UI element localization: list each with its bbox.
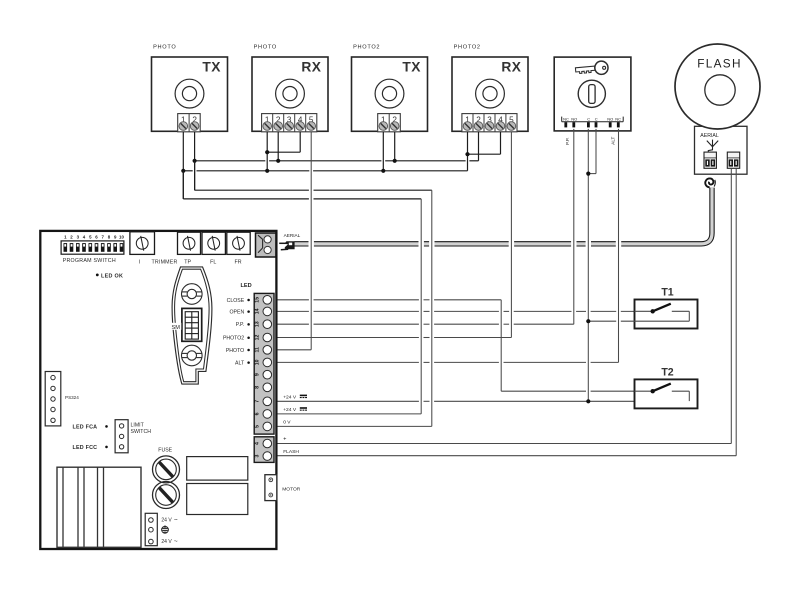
svg-text:FLASH: FLASH <box>283 449 299 455</box>
svg-text:FR: FR <box>234 259 241 265</box>
svg-text:+: + <box>283 437 286 443</box>
svg-text:PHOTO2: PHOTO2 <box>223 336 244 342</box>
svg-text:FLASH: FLASH <box>697 57 742 71</box>
svg-text:TX: TX <box>402 60 421 75</box>
svg-text:SWITCH: SWITCH <box>131 429 152 435</box>
power terminal block 24V <box>145 513 157 545</box>
board terminal strip 15..5 <box>254 293 274 434</box>
svg-text:LED: LED <box>241 283 252 289</box>
T1 lower wire to key common <box>588 320 616 322</box>
svg-text:PHOTO: PHOTO <box>226 348 244 354</box>
coax aerial cable from board to flash <box>295 188 713 244</box>
svg-text:6: 6 <box>255 412 261 415</box>
svg-text:13: 13 <box>255 321 261 327</box>
wire H2: TX1-1 / bus B feed to +24V vertical <box>182 171 184 199</box>
svg-text:CLOSE: CLOSE <box>227 298 245 304</box>
control board outline <box>40 231 276 549</box>
wire: TX1 terminal 1 drop to +24V bus <box>182 132 184 199</box>
vertical wire to board 0V terminal 5 <box>431 190 433 426</box>
DIP switch numbers 1-10 <box>64 234 124 239</box>
svg-text:24 V: 24 V <box>161 539 172 545</box>
wire H1: TX1-2 / bus A feed to 0V vertical <box>194 161 196 190</box>
SM screw bottom <box>182 345 203 366</box>
svg-text:C: C <box>587 116 590 121</box>
coax connector glyph at board aerial terminals <box>279 241 294 250</box>
line terminal 5 0V <box>278 425 432 427</box>
wire: TX2 terminal 1 drop <box>382 132 384 171</box>
flash aerial terminal block <box>704 152 716 168</box>
svg-text:RX: RX <box>501 60 521 75</box>
flash supply terminal block <box>727 152 739 168</box>
svg-text:7: 7 <box>255 400 261 403</box>
svg-text:11: 11 <box>255 347 261 353</box>
transformer <box>57 467 141 547</box>
svg-text:+24 V: +24 V <box>283 407 297 413</box>
line terminal 11 PHOTO to RX1 <box>278 349 312 351</box>
board terminal block 4,3 <box>254 437 274 463</box>
photocell TX2 terminal block pins 1-2 <box>378 114 401 132</box>
svg-text:~: ~ <box>174 516 178 523</box>
flashing lamp body rect <box>695 126 748 174</box>
svg-text:15: 15 <box>255 297 261 303</box>
wire: RX2 jumper terminal 1 to 4 <box>500 132 502 154</box>
svg-text:C: C <box>595 116 598 121</box>
line terminal 4 + to flash lamp <box>278 443 732 445</box>
svg-text:LED FCC: LED FCC <box>73 445 98 451</box>
DIP switch PROGRAM SWITCH block <box>61 241 124 254</box>
svg-text:ALT: ALT <box>611 136 616 144</box>
wire: RX1 jumper terminal 1 to 4 <box>299 132 301 152</box>
photocell RX1 box <box>252 57 328 131</box>
svg-text:4: 4 <box>255 442 261 445</box>
wire: RX1 terminal 1 drop <box>266 132 268 171</box>
svg-text:ALT: ALT <box>235 360 245 366</box>
wire: TX1 terminal 2 drop to 0V bus <box>194 132 196 190</box>
key selector switch box <box>554 57 631 131</box>
svg-text:AERIAL: AERIAL <box>700 133 719 139</box>
svg-text:PHOTO2: PHOTO2 <box>454 44 481 50</box>
svg-text:PHOTO: PHOTO <box>153 44 176 50</box>
svg-text:PS324: PS324 <box>65 395 79 400</box>
keyhole <box>578 80 605 107</box>
photocell TX2 box <box>352 57 428 131</box>
svg-text:+24 V: +24 V <box>283 394 297 400</box>
svg-text:SM: SM <box>172 325 181 331</box>
svg-text:8: 8 <box>255 386 261 389</box>
bus wire A (0V) across photocells <box>195 160 266 162</box>
trimmer FR box <box>227 232 250 254</box>
wire: RX1 terminal 2 drop <box>277 132 279 161</box>
svg-text:9: 9 <box>255 373 261 376</box>
svg-text:NC: NC <box>615 116 621 121</box>
svg-text:NO: NO <box>571 116 577 121</box>
line terminal 14 OPEN to T1 <box>278 310 309 312</box>
svg-text:I: I <box>139 259 140 265</box>
svg-text:P.P.: P.P. <box>565 137 570 145</box>
bus wire B (+24V) across photocells <box>183 170 192 172</box>
motor terminal block <box>265 475 277 501</box>
key switch pins <box>564 122 567 127</box>
antenna symbol on flash unit <box>707 140 718 153</box>
SM radio module <box>172 267 212 384</box>
svg-text:P.P.: P.P. <box>236 322 244 328</box>
wire: RX2 terminal 5 output down to PHOTO2 terminal 12 <box>510 132 512 338</box>
svg-text:3: 3 <box>255 455 261 458</box>
line terminal 15 CLOSE to T2 <box>278 299 309 301</box>
svg-text:10: 10 <box>255 359 261 365</box>
line terminal 3 FLASH to flash lamp <box>278 455 737 457</box>
svg-text:T2: T2 <box>661 367 673 379</box>
photocell TX1 terminal block pins 1-2 <box>178 114 201 132</box>
svg-text:MOTOR: MOTOR <box>282 487 301 493</box>
relay 1 <box>187 457 248 481</box>
svg-text:PROGRAM SWITCH: PROGRAM SWITCH <box>63 258 116 264</box>
SM screw top <box>182 284 203 305</box>
svg-text:OPEN: OPEN <box>229 309 244 315</box>
line terminal 10 ALT to key switch <box>278 361 419 363</box>
svg-text:14: 14 <box>255 308 261 314</box>
svg-text:NO: NO <box>607 116 613 121</box>
photocell RX2 lens <box>476 79 505 108</box>
svg-text:PHOTO: PHOTO <box>254 44 277 50</box>
trimmer I box <box>130 232 155 255</box>
wire: TX2 terminal 2 drop <box>394 132 396 161</box>
svg-text:LIMIT: LIMIT <box>131 423 145 429</box>
svg-text:NC: NC <box>563 116 569 121</box>
limit switch connector <box>115 420 128 453</box>
LED OK label <box>96 274 99 277</box>
svg-text:24 V: 24 V <box>161 517 172 523</box>
svg-text:TX: TX <box>202 60 221 75</box>
svg-text:12: 12 <box>255 335 261 341</box>
line terminal 13 P.P. to key switch <box>278 323 309 325</box>
svg-text:10: 10 <box>119 234 124 239</box>
trimmer TP box <box>178 232 201 254</box>
line terminal 6 +24V <box>278 413 422 415</box>
svg-text:TRIMMER: TRIMMER <box>151 259 177 265</box>
wire: RX1 terminal 5 output down to PHOTO terminal 11 <box>310 132 312 350</box>
coax stripped end / hook at flash <box>705 178 715 187</box>
photocell TX1 box <box>152 57 228 131</box>
key switch ALT contact wire <box>618 129 620 363</box>
svg-text:AERIAL: AERIAL <box>284 233 301 238</box>
svg-text:LED FCA: LED FCA <box>73 424 98 430</box>
svg-text:0 V: 0 V <box>283 420 291 426</box>
key switch P.P. contact wire <box>573 129 575 324</box>
fuse 1 <box>153 456 180 483</box>
vertical wire to board +24V terminal 6 <box>420 199 422 414</box>
line terminal 12 PHOTO2 to RX2 <box>278 337 419 339</box>
svg-text:FUSE: FUSE <box>158 447 172 453</box>
svg-text:LED OK: LED OK <box>101 273 123 279</box>
svg-text:TP: TP <box>184 259 191 265</box>
fuse 2 <box>153 482 180 509</box>
svg-text:5: 5 <box>255 425 261 428</box>
photocell RX2 terminal block pins 1-5 <box>462 114 517 132</box>
key switch common wire C <box>587 129 589 401</box>
key icon <box>575 61 609 77</box>
photocell RX1 lens <box>276 79 305 108</box>
photocell TX1 lens <box>175 79 204 108</box>
svg-text:PHOTO2: PHOTO2 <box>353 44 380 50</box>
svg-text:~: ~ <box>174 538 178 545</box>
flashing lamp FLASH dome <box>675 44 760 129</box>
svg-text:FL: FL <box>210 259 216 265</box>
PS324 connector <box>45 372 61 426</box>
SM connector <box>182 308 202 341</box>
board aerial terminal block <box>256 233 276 257</box>
relay 2 <box>187 484 248 515</box>
wire: RX2 terminal 2 drop <box>478 132 480 161</box>
line terminal 7 +24V to T2 and key common <box>278 400 419 402</box>
photocell RX2 box <box>452 57 528 131</box>
svg-text:T1: T1 <box>661 287 673 299</box>
svg-text:RX: RX <box>301 60 321 75</box>
trimmer FL box <box>202 232 225 254</box>
photocell TX2 lens <box>375 79 404 108</box>
wire: RX2 terminal 1 drop <box>467 132 469 171</box>
photocell RX1 terminal block pins 1-5 <box>262 114 317 132</box>
